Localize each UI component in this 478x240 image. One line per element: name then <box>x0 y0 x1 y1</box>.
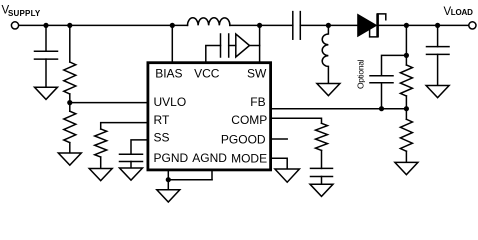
svg-text:Optional: Optional <box>355 59 365 89</box>
svg-text:COMP: COMP <box>231 113 267 127</box>
svg-text:PGOOD: PGOOD <box>221 133 266 147</box>
svg-text:MODE: MODE <box>231 152 267 166</box>
svg-text:VCC: VCC <box>194 66 220 80</box>
svg-text:SS: SS <box>154 131 170 145</box>
svg-text:FB: FB <box>250 95 265 109</box>
svg-text:UVLO: UVLO <box>154 95 187 109</box>
svg-text:AGND: AGND <box>192 151 227 165</box>
svg-text:SW: SW <box>247 66 267 80</box>
svg-text:RT: RT <box>154 113 170 127</box>
svg-text:PGND: PGND <box>154 151 189 165</box>
svg-text:BIAS: BIAS <box>155 66 182 80</box>
svg-text:SUPPLY: SUPPLY <box>8 9 41 18</box>
svg-text:LOAD: LOAD <box>451 8 473 17</box>
